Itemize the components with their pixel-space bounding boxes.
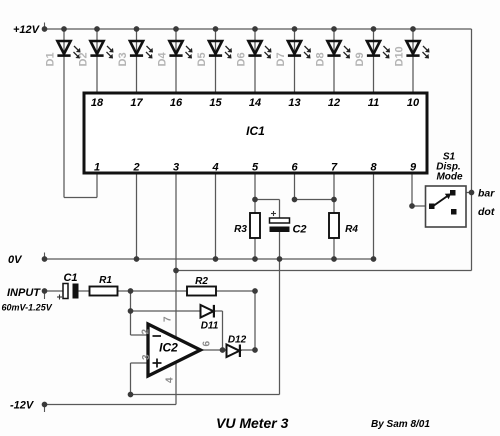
junctions on 0V rail bbox=[42, 256, 377, 262]
svg-text:15: 15 bbox=[209, 97, 222, 109]
svg-text:D6: D6 bbox=[236, 52, 248, 66]
svg-text:C1: C1 bbox=[63, 272, 77, 284]
svg-text:bar: bar bbox=[478, 188, 495, 200]
svg-text:INPUT: INPUT bbox=[7, 287, 41, 299]
terminal tick 0V bbox=[44, 253, 46, 258]
wire R2 right bbox=[216, 290, 255, 292]
wire -12V to IC2 pin 4 bbox=[175, 362, 177, 405]
svg-text:2: 2 bbox=[141, 329, 152, 335]
junction D11 anode / - input bbox=[128, 308, 134, 314]
svg-text:By Sam 8/01: By Sam 8/01 bbox=[371, 419, 430, 430]
svg-text:D1: D1 bbox=[45, 52, 57, 66]
wire - input branch down bbox=[130, 291, 132, 335]
resistor R4 bbox=[329, 213, 339, 238]
LED D2 bbox=[78, 29, 114, 93]
diode D12 bbox=[227, 345, 240, 358]
svg-text:18: 18 bbox=[91, 97, 104, 109]
wire pin 9 to S1 common bbox=[412, 205, 430, 207]
svg-text:Mode: Mode bbox=[436, 172, 463, 183]
wire S1 bar contact to +12V bbox=[455, 192, 472, 194]
wire C2 top stub bbox=[279, 200, 281, 219]
wire IC1 pin 3 / IC2 pin 7 vertical bbox=[175, 173, 177, 340]
svg-text:D10: D10 bbox=[394, 46, 406, 66]
svg-text:9: 9 bbox=[410, 162, 417, 174]
IC1 body bbox=[84, 93, 427, 173]
wire C2 bottom to 0V bbox=[279, 232, 281, 259]
svg-text:3: 3 bbox=[173, 162, 179, 174]
svg-text:D5: D5 bbox=[196, 52, 208, 66]
wire D1 cathode down bbox=[63, 29, 65, 198]
wire D11 to output bbox=[222, 311, 224, 350]
svg-text:17: 17 bbox=[130, 97, 143, 109]
wire R4 bottom to 0V bbox=[333, 238, 335, 259]
junction 0V branch corner bbox=[128, 392, 134, 398]
svg-text:R2: R2 bbox=[195, 276, 208, 287]
wire 0V branch left bbox=[131, 394, 280, 396]
LED D10 bbox=[394, 29, 430, 93]
terminal tick +12V bbox=[44, 23, 46, 28]
svg-text:10: 10 bbox=[407, 97, 420, 109]
wire IC1 pin 2 to 0V bbox=[136, 173, 138, 259]
svg-text:D2: D2 bbox=[78, 52, 90, 66]
wire R1 to R2 bbox=[118, 290, 188, 292]
wire IC1 pin 6 down bbox=[294, 173, 296, 200]
wire +12V right drop bbox=[471, 29, 473, 271]
wire IC1 pin 9 down bbox=[411, 173, 413, 206]
junction pin 7 node bbox=[331, 197, 337, 203]
wire pin 5 to C2 branch bbox=[255, 199, 280, 201]
svg-text:1: 1 bbox=[94, 162, 100, 174]
wire 0V branch down bbox=[279, 259, 281, 395]
S1 lever arrow bbox=[433, 195, 450, 207]
svg-text:dot: dot bbox=[478, 206, 495, 218]
LED D1 bbox=[45, 41, 81, 67]
svg-text:6: 6 bbox=[202, 341, 213, 347]
S1 common contact bbox=[429, 204, 435, 210]
wire IC1 pin 7 down bbox=[333, 173, 335, 213]
diode D11 bbox=[201, 305, 214, 318]
LED D3 bbox=[117, 29, 153, 93]
svg-text:5: 5 bbox=[252, 162, 259, 174]
S1 dot contact bbox=[451, 209, 457, 215]
terminal tick INPUT bbox=[44, 293, 46, 299]
wire S1 dot contact stub bbox=[457, 211, 462, 213]
wire 0V branch up to + input bbox=[130, 363, 132, 395]
capacitor C2 bbox=[270, 218, 290, 223]
junction INPUT terminal bbox=[42, 288, 48, 294]
svg-text:6: 6 bbox=[291, 162, 298, 174]
wire + input bbox=[131, 362, 150, 364]
junction D12 cathode / R2 bbox=[252, 347, 258, 353]
S1 bar contact bbox=[450, 190, 456, 196]
svg-text:7: 7 bbox=[331, 162, 338, 174]
wire pin 1 left to D1 bbox=[64, 197, 97, 199]
svg-text:R4: R4 bbox=[345, 224, 358, 235]
junction pin 6 node bbox=[292, 197, 298, 203]
svg-text:D9: D9 bbox=[354, 52, 366, 66]
svg-text:14: 14 bbox=[249, 97, 261, 109]
IC2 inverting input sign bbox=[153, 335, 162, 337]
svg-text:0V: 0V bbox=[8, 254, 23, 266]
svg-text:2: 2 bbox=[132, 162, 139, 174]
resistor R2 bbox=[187, 287, 216, 296]
svg-text:VU Meter 3: VU Meter 3 bbox=[216, 415, 289, 431]
LED D4 bbox=[157, 29, 193, 93]
svg-text:IC2: IC2 bbox=[159, 341, 178, 355]
resistor R1 bbox=[90, 287, 118, 296]
wire IC1 pin 5 down bbox=[254, 173, 256, 213]
svg-text:3: 3 bbox=[141, 354, 152, 360]
wire D12 cathode stub bbox=[240, 349, 255, 351]
LED D7 bbox=[275, 29, 311, 93]
svg-text:R3: R3 bbox=[234, 224, 247, 235]
wire IC2 output to D12 bbox=[201, 349, 227, 351]
C1 polarity + bbox=[57, 296, 62, 298]
op-amp IC2 bbox=[148, 324, 201, 376]
svg-text:7: 7 bbox=[163, 316, 174, 322]
junction bar contact / +12V bbox=[469, 190, 475, 196]
capacitor C1 bbox=[63, 284, 68, 299]
svg-text:C2: C2 bbox=[292, 224, 306, 236]
LED D9 bbox=[354, 29, 390, 93]
wire +12V rail bbox=[45, 28, 472, 30]
IC1 top pin numbers 18-10 bbox=[91, 97, 420, 109]
svg-text:4: 4 bbox=[165, 377, 176, 383]
junction output / D11 bbox=[220, 347, 226, 353]
wire R2 to D12 cathode bbox=[254, 291, 256, 350]
wire D11 anode line bbox=[131, 310, 201, 312]
wire IC1 pin 1 down bbox=[96, 173, 98, 198]
junction R2 / D12 cathode bbox=[252, 288, 258, 294]
wire -12V rail bbox=[45, 404, 177, 406]
LED D6 bbox=[236, 29, 272, 93]
svg-text:12: 12 bbox=[328, 97, 340, 109]
svg-text:D3: D3 bbox=[117, 52, 129, 66]
svg-text:R1: R1 bbox=[99, 275, 112, 286]
resistor R3 bbox=[250, 213, 260, 238]
svg-text:-12V: -12V bbox=[10, 400, 35, 412]
svg-text:60mV-1.25V: 60mV-1.25V bbox=[2, 303, 53, 313]
wire IC1 pin 4 to 0V bbox=[215, 173, 217, 259]
terminal tick -12V bbox=[44, 407, 46, 413]
wire C1 to R1 bbox=[79, 290, 90, 292]
svg-text:D7: D7 bbox=[275, 52, 287, 66]
junction +12V return / pin 3 bbox=[173, 268, 179, 274]
IC1 bottom pin numbers 1-9 bbox=[94, 162, 417, 174]
svg-text:16: 16 bbox=[170, 97, 183, 109]
junction -12V terminal bbox=[42, 402, 48, 408]
svg-text:4: 4 bbox=[211, 162, 218, 174]
wire INPUT to C1 bbox=[45, 290, 64, 292]
wire pin 6 to pin 7 bbox=[295, 199, 335, 201]
C2 polarity + bbox=[271, 213, 276, 215]
junction pin 5 node bbox=[252, 197, 258, 203]
svg-text:8: 8 bbox=[370, 162, 377, 174]
wire 0V rail bbox=[45, 258, 374, 260]
wire IC1 pin 8 to 0V bbox=[373, 173, 375, 259]
wire - input bbox=[131, 334, 150, 336]
junction R1 / R2 / - input bbox=[128, 288, 134, 294]
svg-text:+12V: +12V bbox=[13, 24, 41, 36]
wire D11 cathode right bbox=[214, 310, 223, 312]
wire R3 bottom to 0V bbox=[254, 238, 256, 259]
svg-text:11: 11 bbox=[368, 97, 379, 109]
junctions on +12V rail bbox=[42, 26, 416, 32]
switch S1 box bbox=[426, 186, 467, 227]
wire +12V return to pin 3 bbox=[176, 270, 472, 272]
svg-text:D11: D11 bbox=[201, 321, 219, 332]
IC2 non-inverting input sign bbox=[153, 362, 162, 364]
LED D5 bbox=[196, 29, 232, 93]
junction pin 9 / S1 bbox=[409, 203, 415, 209]
svg-text:D8: D8 bbox=[315, 52, 327, 66]
svg-text:D4: D4 bbox=[157, 52, 169, 67]
svg-text:IC1: IC1 bbox=[246, 124, 265, 138]
svg-text:D12: D12 bbox=[228, 335, 247, 346]
svg-text:13: 13 bbox=[288, 97, 300, 109]
LED D8 bbox=[315, 29, 351, 93]
